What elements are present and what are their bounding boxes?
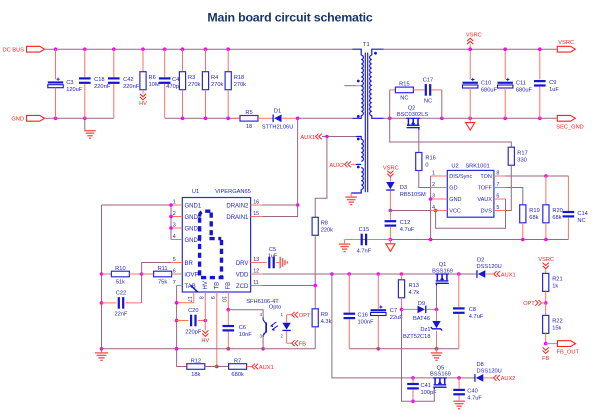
U1 right pin leads bbox=[251, 204, 263, 206]
junctions left vertical bbox=[100, 272, 104, 276]
svg-text:4.7nF: 4.7nF bbox=[357, 248, 372, 254]
junction R13 node bbox=[400, 308, 404, 312]
wire R8 to ZCD to R9 bbox=[314, 235, 316, 308]
wire DIS to GND tie bbox=[430, 176, 432, 240]
junction OPT node bbox=[544, 301, 548, 305]
ground symbol left rail bbox=[101, 349, 103, 352]
junction R10 R11 bbox=[140, 272, 144, 276]
resistor R3 bbox=[182, 49, 184, 71]
svg-text:DSS120U: DSS120U bbox=[477, 369, 502, 375]
junction C41 bottom bbox=[411, 400, 415, 404]
svg-text:BAT46: BAT46 bbox=[413, 316, 430, 322]
wire FB vertical bbox=[227, 298, 229, 310]
wire TON net bbox=[506, 175, 569, 177]
junction C20 HV bbox=[204, 319, 208, 323]
wire DRAIN1 bbox=[262, 205, 297, 217]
svg-text:T1: T1 bbox=[363, 42, 370, 48]
svg-text:1: 1 bbox=[432, 170, 435, 176]
svg-text:OPT: OPT bbox=[523, 301, 535, 307]
svg-text:NC: NC bbox=[577, 218, 585, 224]
power symbol FB bbox=[543, 347, 549, 353]
svg-text:R5: R5 bbox=[245, 110, 252, 116]
ground symbol triangle C12 bbox=[389, 240, 391, 244]
junction VCC node bbox=[389, 209, 393, 213]
junction R19 rail bbox=[521, 238, 525, 242]
wire GND1 net left vertical bbox=[102, 204, 172, 206]
junction C8 node bbox=[457, 272, 461, 276]
svg-text:C18: C18 bbox=[94, 77, 104, 83]
resistor R19 bbox=[520, 205, 526, 223]
node drain junction bbox=[296, 117, 300, 121]
svg-text:FB_OUT: FB_OUT bbox=[557, 350, 580, 356]
svg-text:5: 5 bbox=[173, 257, 176, 263]
resistor R22 bbox=[545, 303, 547, 316]
wire D1 to primary bbox=[282, 117, 298, 119]
resistor R21 bbox=[543, 273, 549, 291]
resistor R11 bbox=[142, 273, 154, 275]
svg-text:C20: C20 bbox=[188, 308, 198, 314]
wire Dz1 to rail bbox=[436, 331, 438, 349]
capacitor C22 bbox=[102, 302, 117, 304]
svg-text:DVS: DVS bbox=[481, 209, 493, 215]
power symbol HV at U1 bbox=[202, 330, 208, 336]
svg-text:270k: 270k bbox=[211, 82, 223, 88]
svg-text:C41: C41 bbox=[421, 383, 431, 389]
capacitor C41 bbox=[412, 378, 414, 383]
capacitor C6 bbox=[227, 310, 229, 325]
svg-text:GND3: GND3 bbox=[185, 226, 202, 232]
svg-text:4.7uF: 4.7uF bbox=[467, 396, 482, 402]
svg-text:7: 7 bbox=[496, 182, 499, 188]
svg-text:9: 9 bbox=[209, 296, 215, 299]
svg-text:D8: D8 bbox=[477, 362, 484, 368]
svg-text:2: 2 bbox=[432, 182, 435, 188]
port FB_OUT bbox=[558, 341, 576, 347]
capacitor C15 bbox=[345, 239, 361, 241]
svg-text:iOVP: iOVP bbox=[185, 272, 199, 278]
svg-text:220k: 220k bbox=[321, 228, 333, 234]
junction D9 Dz1 gate bbox=[435, 308, 439, 312]
svg-text:OPT: OPT bbox=[299, 313, 311, 319]
U2 right pins bbox=[494, 175, 506, 177]
svg-text:C4: C4 bbox=[172, 77, 179, 83]
wire C22 up bbox=[141, 274, 143, 303]
svg-text:3: 3 bbox=[259, 334, 262, 339]
resistor R20 bbox=[545, 176, 547, 205]
svg-text:R17: R17 bbox=[517, 150, 527, 156]
net label OPT at opto bbox=[287, 314, 293, 316]
svg-text:GND: GND bbox=[449, 197, 461, 203]
svg-text:TB: TB bbox=[215, 282, 221, 290]
junction ZCD bbox=[313, 284, 317, 288]
svg-text:4: 4 bbox=[432, 205, 435, 211]
svg-text:R6: R6 bbox=[149, 75, 156, 81]
svg-text:HV: HV bbox=[203, 281, 209, 289]
capacitor C10 bbox=[469, 49, 471, 79]
wire left gnd rail bbox=[102, 348, 316, 350]
svg-text:FB: FB bbox=[299, 342, 306, 348]
svg-text:4: 4 bbox=[173, 234, 176, 240]
junction FB node bbox=[544, 342, 548, 346]
svg-text:4.7k: 4.7k bbox=[409, 290, 420, 296]
wire R15 right vertical bbox=[441, 90, 443, 118]
svg-text:2: 2 bbox=[280, 334, 283, 339]
wire VDD to Q5 drain bbox=[332, 274, 413, 378]
svg-text:100nF: 100nF bbox=[358, 320, 375, 326]
svg-text:DRAIN2: DRAIN2 bbox=[226, 203, 249, 209]
svg-text:75k: 75k bbox=[158, 280, 167, 286]
wire rail to R12 bbox=[177, 349, 187, 367]
wire DC bus bbox=[45, 48, 353, 50]
svg-text:C9: C9 bbox=[549, 80, 556, 86]
svg-text:BR: BR bbox=[185, 261, 194, 267]
wire pin17 join bbox=[177, 298, 194, 303]
resistor R8 bbox=[312, 217, 318, 235]
junction TB node bbox=[215, 365, 219, 369]
wire Q1 source to C8 bbox=[449, 273, 459, 275]
svg-text:680uF: 680uF bbox=[481, 87, 498, 93]
U1 bottom pin leads bbox=[193, 292, 195, 298]
svg-text:Q1: Q1 bbox=[439, 262, 447, 268]
wire TOFF to R19 bbox=[506, 188, 523, 205]
diode D9 bbox=[402, 308, 418, 310]
resistor R6 bbox=[142, 49, 144, 71]
wire TB vertical bbox=[216, 298, 218, 367]
svg-text:BSS169: BSS169 bbox=[430, 372, 451, 378]
svg-text:ZCD: ZCD bbox=[236, 284, 249, 290]
svg-text:10nF: 10nF bbox=[239, 332, 252, 338]
svg-text:7: 7 bbox=[173, 280, 176, 286]
svg-text:120uF: 120uF bbox=[66, 87, 83, 93]
svg-text:VSRC: VSRC bbox=[466, 33, 482, 39]
svg-text:BZT52C18: BZT52C18 bbox=[403, 334, 431, 340]
capacitor C17 bbox=[425, 84, 427, 96]
svg-text:R19: R19 bbox=[529, 208, 539, 214]
junction dots secondary top bus bbox=[468, 47, 472, 51]
svg-text:R20: R20 bbox=[552, 208, 562, 214]
zener Dz1 bbox=[436, 309, 438, 321]
wire Q5 gate loop bbox=[402, 309, 435, 401]
svg-text:51k: 51k bbox=[116, 280, 125, 286]
junction R20 rail bbox=[544, 238, 548, 242]
svg-text:FB: FB bbox=[542, 356, 549, 362]
capacitor C16 bbox=[348, 274, 350, 312]
power symbol HV at R6 bbox=[140, 94, 146, 100]
svg-text:GD: GD bbox=[449, 186, 457, 192]
wire to FB_OUT port bbox=[546, 343, 558, 345]
diode D2 bbox=[459, 273, 477, 275]
capacitor C7 bbox=[377, 274, 379, 309]
svg-text:C17: C17 bbox=[423, 78, 433, 84]
port SEC_GND bbox=[557, 115, 575, 121]
resistor R12 bbox=[187, 364, 205, 370]
svg-text:8: 8 bbox=[496, 170, 499, 176]
svg-text:1: 1 bbox=[280, 312, 283, 317]
wire AUX1 to R8 bbox=[315, 137, 327, 218]
svg-text:FB: FB bbox=[226, 282, 232, 290]
resistor R16 bbox=[416, 153, 422, 171]
svg-text:18: 18 bbox=[246, 124, 252, 130]
svg-text:3: 3 bbox=[432, 193, 435, 199]
ground symbol right rail bbox=[436, 349, 438, 352]
svg-text:1: 1 bbox=[173, 199, 176, 205]
junction opto emitter bbox=[261, 347, 265, 351]
svg-text:17: 17 bbox=[186, 296, 192, 302]
capacitor C3 bbox=[55, 49, 57, 79]
junction TAB net bbox=[175, 301, 179, 305]
svg-text:1uF: 1uF bbox=[549, 87, 559, 93]
svg-text:Main board circuit schematic: Main board circuit schematic bbox=[207, 11, 372, 25]
diode D3 bbox=[386, 182, 394, 189]
svg-text:AUX1: AUX1 bbox=[501, 272, 516, 278]
resistor R5 bbox=[234, 117, 240, 119]
svg-text:10: 10 bbox=[221, 296, 227, 302]
svg-text:R4: R4 bbox=[211, 75, 218, 81]
op-amp U2 SRK1001 body bbox=[447, 170, 494, 217]
wire HV pin lead bbox=[204, 298, 206, 331]
svg-text:330: 330 bbox=[517, 157, 527, 163]
capacitor C12 bbox=[389, 211, 391, 220]
svg-text:C22: C22 bbox=[116, 291, 126, 297]
U1 gnd pins tie vertical bbox=[170, 205, 172, 240]
svg-text:68k: 68k bbox=[552, 215, 561, 221]
port VSRC right bbox=[557, 46, 575, 52]
svg-text:AUX2: AUX2 bbox=[329, 163, 344, 169]
svg-text:5: 5 bbox=[496, 205, 499, 211]
resistor R18 bbox=[227, 49, 229, 71]
svg-text:HV: HV bbox=[139, 101, 147, 107]
svg-text:Opto: Opto bbox=[269, 305, 281, 311]
svg-text:2: 2 bbox=[173, 211, 176, 217]
svg-text:R12: R12 bbox=[191, 358, 201, 364]
svg-text:8: 8 bbox=[198, 296, 204, 299]
port DC_BUS bbox=[27, 46, 45, 52]
wire secondary top bus bbox=[384, 48, 558, 50]
svg-text:U1: U1 bbox=[192, 189, 199, 195]
junction C12 rail bbox=[389, 238, 393, 242]
diode D1 bbox=[273, 115, 274, 123]
net label FB at opto bbox=[287, 342, 293, 344]
svg-text:R22: R22 bbox=[552, 319, 562, 325]
svg-text:GND1: GND1 bbox=[185, 203, 202, 209]
svg-text:R18: R18 bbox=[234, 75, 244, 81]
svg-text:D1: D1 bbox=[274, 108, 281, 114]
resistor R15 bbox=[389, 90, 391, 118]
U1 internal dashed symbol bbox=[200, 211, 224, 277]
junction Dz1 rail bbox=[435, 347, 439, 351]
svg-text:VIPERGAN65: VIPERGAN65 bbox=[215, 189, 251, 195]
svg-text:220nF: 220nF bbox=[94, 84, 111, 90]
wire DRAIN2 bbox=[262, 204, 297, 206]
svg-text:DC BUS: DC BUS bbox=[3, 47, 25, 53]
U1 left pin leads bbox=[171, 204, 182, 206]
svg-text:D9: D9 bbox=[418, 301, 425, 307]
junction FB node bbox=[227, 308, 231, 312]
resistor R10 bbox=[102, 273, 112, 275]
ground symbol primary bbox=[84, 118, 86, 130]
capacitor C14 bbox=[567, 176, 569, 211]
svg-text:C12: C12 bbox=[400, 220, 410, 226]
wire Q1 gate bbox=[436, 286, 438, 310]
svg-text:R13: R13 bbox=[409, 283, 419, 289]
junction DIS GND bbox=[429, 197, 433, 201]
wire right gnd rail bbox=[349, 348, 459, 350]
svg-text:D3: D3 bbox=[400, 185, 407, 191]
junction C40 node bbox=[457, 376, 461, 380]
svg-text:C10: C10 bbox=[481, 80, 491, 86]
svg-text:DRAIN1: DRAIN1 bbox=[226, 215, 249, 221]
wire secondary gnd rail bbox=[384, 117, 408, 119]
svg-text:Dz1: Dz1 bbox=[420, 327, 430, 333]
junction drain bbox=[296, 203, 300, 207]
svg-text:VDD: VDD bbox=[236, 272, 249, 278]
svg-text:R11: R11 bbox=[158, 266, 168, 272]
net label AUX1 at D2 bbox=[485, 273, 493, 275]
junction C41 top bbox=[411, 376, 415, 380]
wire Q5 drain bbox=[413, 377, 433, 379]
port GND bbox=[27, 115, 45, 121]
svg-text:220pF: 220pF bbox=[185, 329, 202, 335]
svg-text:0: 0 bbox=[425, 163, 428, 169]
resistor R17 bbox=[508, 147, 514, 165]
opto U3 SFH6106-4T bbox=[246, 299, 291, 343]
svg-text:U2: U2 bbox=[451, 163, 458, 169]
svg-text:R7: R7 bbox=[234, 358, 241, 364]
svg-text:15: 15 bbox=[253, 211, 259, 217]
diode D8 bbox=[459, 377, 474, 379]
capacitor C18 bbox=[84, 49, 86, 77]
svg-text:6: 6 bbox=[496, 193, 499, 199]
capacitor C11 bbox=[504, 49, 506, 79]
svg-text:D2: D2 bbox=[477, 258, 484, 264]
svg-text:C7: C7 bbox=[390, 308, 397, 314]
svg-text:AUX1: AUX1 bbox=[300, 135, 315, 141]
junction C6 rail bbox=[227, 347, 231, 351]
svg-text:R3: R3 bbox=[188, 75, 195, 81]
wire R5 to D1 bbox=[258, 117, 273, 119]
svg-text:C11: C11 bbox=[516, 80, 526, 86]
svg-text:AUX1: AUX1 bbox=[259, 365, 274, 371]
svg-text:270k: 270k bbox=[188, 82, 200, 88]
svg-text:4.7uF: 4.7uF bbox=[469, 314, 484, 320]
resistor R4 bbox=[205, 49, 207, 71]
wire drain vertical bbox=[297, 118, 299, 205]
wire C4-R18 bottom bus bbox=[165, 117, 240, 119]
capacitor C5 bbox=[262, 262, 267, 264]
svg-text:18k: 18k bbox=[191, 372, 200, 378]
svg-text:VSRC: VSRC bbox=[538, 257, 554, 263]
svg-text:SRK1001: SRK1001 bbox=[465, 163, 489, 169]
wire VCC line bbox=[390, 210, 447, 212]
ground symbol C40 bbox=[453, 401, 465, 402]
junction dots VDD bbox=[330, 272, 334, 276]
svg-text:C16: C16 bbox=[358, 313, 368, 319]
svg-text:AUX2: AUX2 bbox=[501, 376, 516, 382]
svg-text:1k: 1k bbox=[552, 284, 558, 290]
svg-text:TOFF: TOFF bbox=[478, 186, 493, 192]
svg-text:DRV: DRV bbox=[236, 261, 249, 267]
net label AUX2 at D8 bbox=[483, 377, 493, 379]
resistor R9 bbox=[312, 309, 318, 327]
junction VCC branch bbox=[434, 209, 438, 213]
svg-text:4.3k: 4.3k bbox=[321, 319, 332, 325]
svg-text:68k: 68k bbox=[529, 215, 538, 221]
svg-text:GND4: GND4 bbox=[185, 238, 202, 244]
svg-text:C5: C5 bbox=[269, 247, 276, 253]
svg-text:C15: C15 bbox=[359, 227, 369, 233]
svg-text:C6: C6 bbox=[239, 325, 246, 331]
svg-text:C8: C8 bbox=[469, 307, 476, 313]
svg-text:VSRC: VSRC bbox=[558, 40, 574, 46]
svg-text:13: 13 bbox=[253, 257, 259, 263]
svg-text:R21: R21 bbox=[552, 277, 562, 283]
svg-text:NC: NC bbox=[424, 99, 432, 105]
svg-text:220nF: 220nF bbox=[123, 84, 140, 90]
svg-text:R10: R10 bbox=[115, 266, 125, 272]
capacitor C42 bbox=[113, 49, 115, 77]
junction gnd pins bbox=[169, 203, 173, 207]
ground symbol DRV sideways bbox=[280, 257, 281, 269]
svg-text:12: 12 bbox=[253, 268, 259, 274]
svg-text:VCC: VCC bbox=[449, 209, 461, 215]
junction Q2 left node bbox=[388, 117, 392, 121]
wire VAUX loop bbox=[436, 199, 506, 228]
svg-text:SEC_GND: SEC_GND bbox=[556, 124, 584, 130]
svg-text:4: 4 bbox=[259, 312, 262, 317]
wire R9 to rail bbox=[314, 327, 316, 349]
ground symbol transformer aux bbox=[350, 193, 352, 196]
svg-text:TAB: TAB bbox=[185, 284, 196, 290]
ground symbol triangle C10 bbox=[469, 118, 471, 122]
wire AUX1 bbox=[322, 136, 356, 138]
svg-text:TON: TON bbox=[480, 174, 492, 180]
svg-text:DSS120U: DSS120U bbox=[477, 264, 502, 270]
wire Q2 source sense to DVS bbox=[390, 118, 512, 147]
svg-text:HV: HV bbox=[201, 338, 209, 344]
wire R12 to R7 bbox=[205, 366, 229, 368]
svg-text:GND2: GND2 bbox=[185, 215, 202, 221]
junction TON R20 bbox=[544, 174, 548, 178]
svg-text:22nF: 22nF bbox=[115, 312, 128, 318]
svg-text:15k: 15k bbox=[552, 326, 561, 332]
svg-text:C14: C14 bbox=[577, 211, 587, 217]
wire opto collector bbox=[228, 310, 263, 318]
svg-text:R9: R9 bbox=[321, 312, 328, 318]
svg-text:4.7uF: 4.7uF bbox=[400, 227, 415, 233]
svg-text:R8: R8 bbox=[321, 221, 328, 227]
transformer T1 bbox=[344, 42, 383, 193]
ground symbol rail stripe bbox=[344, 240, 346, 244]
svg-text:16: 16 bbox=[253, 199, 259, 205]
op-amp U1 VIPERGAN65 body bbox=[182, 198, 250, 293]
svg-text:GND: GND bbox=[11, 117, 24, 123]
wire secondary controller gnd rail bbox=[345, 239, 569, 241]
capacitor C20 bbox=[177, 320, 189, 322]
wire ZCD bbox=[262, 285, 315, 287]
wire opto emitter bbox=[262, 337, 264, 349]
wire Q5 source bbox=[447, 377, 459, 379]
junction C7 rail bbox=[377, 347, 381, 351]
svg-text:VSRC: VSRC bbox=[383, 165, 399, 171]
svg-text:NC: NC bbox=[400, 96, 408, 102]
svg-text:680uF: 680uF bbox=[516, 87, 533, 93]
wire GND bus bbox=[45, 117, 114, 119]
resistor R13 bbox=[401, 274, 403, 280]
capacitor C8 bbox=[458, 274, 460, 307]
svg-text:VAUX: VAUX bbox=[477, 197, 492, 203]
svg-text:C42: C42 bbox=[123, 77, 133, 83]
svg-text:C3: C3 bbox=[66, 80, 73, 86]
